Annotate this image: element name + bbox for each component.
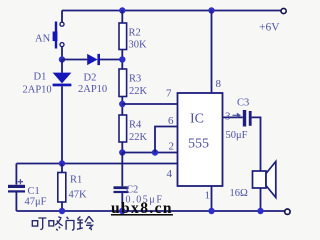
node top rail / pin8: [208, 7, 214, 13]
svg-text:2: 2: [169, 141, 175, 153]
caption ding-dong doorbell (hand-drawn glyphs): [32, 216, 93, 230]
switch AN contact top: [60, 22, 64, 26]
switch AN actuator bar: [53, 22, 58, 49]
svg-text:2AP10: 2AP10: [78, 84, 107, 95]
wire D2 row right segment: [100, 59, 122, 61]
arrow pin3 to C3: [233, 113, 242, 118]
svg-text:555: 555: [188, 137, 209, 152]
svg-text:30K: 30K: [129, 40, 148, 51]
op-amp IC 555 box: [178, 93, 223, 186]
node pin1 bottom: [208, 208, 214, 214]
capacitor C2: [114, 186, 129, 193]
wire node to D1 anode: [61, 60, 63, 73]
wire rail to R2: [121, 11, 123, 24]
wire pin 3: [223, 116, 243, 118]
wire speaker to bottom rail: [260, 188, 262, 211]
wire R3 to R4: [121, 97, 123, 116]
resistor R3: [119, 69, 127, 97]
svg-text:R3: R3: [129, 74, 141, 85]
resistor R1: [58, 173, 66, 203]
node D2/R2/R3 junction: [119, 56, 125, 62]
wire pin 8: [211, 11, 213, 94]
wire C2 column: [121, 153, 123, 187]
svg-text:ubx8.cn: ubx8.cn: [111, 200, 173, 217]
wire switch bottom to node: [61, 47, 63, 60]
node top rail / R2: [119, 7, 125, 13]
svg-text:R2: R2: [129, 28, 141, 39]
svg-text:IC: IC: [190, 112, 204, 127]
wire pin 2: [122, 152, 178, 154]
svg-text:R4: R4: [129, 120, 142, 131]
svg-text:AN: AN: [35, 34, 51, 45]
wire R1 bottom stub: [61, 202, 63, 211]
wire pin 1: [211, 186, 213, 211]
svg-text:4: 4: [167, 168, 173, 180]
svg-text:R1: R1: [70, 175, 82, 186]
wire C2 to bottom rail: [121, 193, 123, 211]
node R4/C2/pin2 junction: [119, 149, 125, 155]
wire C3 to speaker column: [252, 117, 261, 171]
terminal bottom right: [285, 209, 290, 214]
svg-text:22K: 22K: [129, 86, 148, 97]
svg-text:3: 3: [225, 111, 231, 123]
node R1 top junction: [59, 160, 65, 166]
svg-text:8: 8: [216, 78, 222, 90]
svg-text:47K: 47K: [69, 190, 88, 201]
svg-text:22K: 22K: [129, 132, 148, 143]
wire bottom rail: [16, 210, 285, 212]
svg-text:7: 7: [166, 88, 172, 100]
resistor R2: [119, 23, 127, 50]
capacitor C1: [8, 185, 25, 193]
svg-text:6: 6: [168, 115, 174, 127]
node R3/R4/pin7 junction: [119, 101, 125, 107]
svg-text:D1: D1: [34, 72, 47, 83]
svg-text:+6V: +6V: [259, 22, 280, 34]
svg-text:C1: C1: [28, 186, 40, 197]
node speaker bottom: [257, 208, 263, 214]
wire switch top stub: [61, 11, 63, 23]
capacitor C1 polarity +: [18, 179, 23, 184]
capacitor C3: [243, 110, 252, 127]
wire top rail +6V: [62, 10, 281, 12]
node pin6 loop / pin2 junction: [152, 149, 158, 155]
svg-text:D2: D2: [84, 73, 97, 84]
switch AN contact bottom: [60, 43, 64, 47]
wire C1 branch top: [15, 164, 17, 185]
svg-text:1: 1: [205, 190, 211, 202]
wire D2 row left segment: [62, 59, 87, 61]
diode D2: [87, 54, 100, 65]
wire C1/R1/pin4 row: [16, 163, 178, 165]
wire pin 6 loop: [155, 127, 178, 153]
wire R1 top stub: [61, 164, 63, 173]
resistor R4: [119, 115, 127, 142]
svg-text:50μF: 50μF: [226, 130, 248, 141]
svg-text:16Ω: 16Ω: [230, 188, 249, 199]
node R1 bottom: [59, 208, 65, 214]
svg-text:47μF: 47μF: [25, 197, 47, 208]
svg-text:C3: C3: [237, 98, 249, 109]
terminal +6V: [281, 8, 286, 13]
speaker BL: [253, 162, 276, 198]
wire R2 to R3: [121, 50, 123, 70]
node C2 bottom: [119, 208, 125, 214]
wire pin 7: [122, 103, 178, 105]
svg-text:2AP10: 2AP10: [23, 85, 52, 96]
wire C1 to bottom rail: [15, 193, 17, 212]
node switch/D1/D2 junction: [59, 56, 65, 62]
wire D1 cathode down to R1 node: [61, 86, 63, 163]
diode D1: [53, 73, 72, 87]
wire R4 to pin2 node: [121, 142, 123, 153]
